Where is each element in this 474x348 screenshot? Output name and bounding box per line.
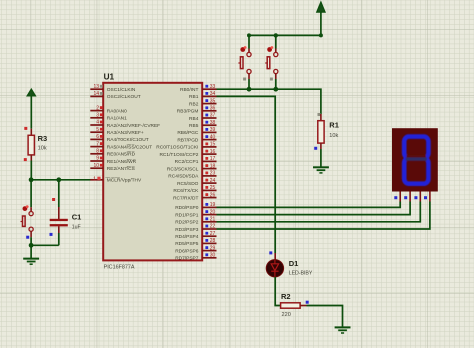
U1 pin 6 RA4 (left) — [90, 134, 148, 143]
wire button SW3 to RB0 net — [275, 79, 277, 89]
7-seg pin 3 — [414, 192, 420, 202]
svg-text:RD3/PSP3: RD3/PSP3 — [175, 227, 199, 233]
wire RD1 (pin 20) to 7-seg pin 2 — [217, 202, 411, 215]
svg-text:R3: R3 — [38, 134, 48, 143]
U1 pin 8 RE0 (left) — [90, 149, 135, 158]
svg-text:27: 27 — [210, 231, 216, 237]
svg-text:OSC1/CLKIN: OSC1/CLKIN — [107, 87, 136, 93]
svg-text:40: 40 — [210, 134, 216, 140]
svg-text:RB1: RB1 — [189, 94, 199, 100]
label R1 — [329, 121, 339, 130]
U1 pin 4 RA2 (left) — [90, 120, 160, 129]
svg-text:17: 17 — [210, 156, 216, 162]
U1 pin 18 RC3 (right) — [167, 163, 217, 172]
U1 pin 14 OSC2 (left) — [90, 91, 140, 100]
U1 pin 36 RB3 (right) — [177, 106, 217, 115]
U1 pin 35 RB2 (right) — [189, 98, 216, 107]
U1 pin 20 RD1 (right) — [175, 209, 216, 218]
svg-text:LED-BIBY: LED-BIBY — [289, 271, 313, 277]
wire RD3 (pin 22) to 7-seg pin 4 — [217, 202, 430, 230]
svg-text:C1: C1 — [72, 213, 82, 222]
svg-text:RE1/AN6/̅W̅R̅: RE1/AN6/̅W̅R̅ — [107, 158, 137, 165]
junction RB0/button2 — [273, 87, 278, 92]
U1 pin 2 RA0 (left) — [90, 105, 127, 114]
push button SW2 (left of pair) — [238, 46, 251, 80]
svg-text:30: 30 — [210, 253, 216, 259]
U1 pin 7 RA5 (left) — [90, 141, 152, 150]
U1 pin 19 RD0 (right) — [175, 202, 216, 211]
svg-text:RC4/SDI/SDA: RC4/SDI/SDA — [168, 174, 199, 180]
wire RD0 (pin 19) to 7-seg pin 1 — [217, 202, 401, 208]
resistor R1 10k — [314, 113, 324, 150]
ground (below R1) — [313, 167, 329, 173]
svg-text:24: 24 — [210, 178, 216, 184]
U1 pin 30 RD7 (right) — [175, 253, 216, 262]
ground (below R2) — [335, 327, 351, 333]
U1 pin 16 RC1 (right) — [159, 149, 216, 158]
value label 220 (R2) — [282, 312, 291, 318]
svg-text:4: 4 — [96, 120, 99, 126]
junction RB0/button1 — [247, 87, 252, 92]
value label 10k (R1) — [329, 133, 338, 139]
svg-text:RB3/PGM: RB3/PGM — [177, 109, 199, 115]
U1 pin 22 RD3 (right) — [175, 224, 216, 233]
svg-text:14: 14 — [93, 91, 99, 97]
svg-text:RD0/PSP0: RD0/PSP0 — [175, 205, 199, 211]
wire VCC rail to buttons — [249, 33, 323, 48]
svg-text:13: 13 — [93, 84, 99, 90]
U1 pin 26 RC7 (right) — [173, 192, 216, 201]
junction on VCC rail — [274, 33, 278, 37]
value label 10k (R3) — [38, 146, 47, 152]
U1 pin 25 RC6 (right) — [173, 185, 216, 194]
svg-text:RD6/PSP6: RD6/PSP6 — [175, 248, 199, 254]
U1 pin 3 RA1 (left) — [90, 113, 127, 122]
svg-text:18: 18 — [210, 163, 216, 169]
svg-text:6: 6 — [96, 134, 99, 140]
svg-text:R1: R1 — [329, 121, 339, 130]
svg-text:RA4/T0CKI/C1OUT: RA4/T0CKI/C1OUT — [107, 137, 149, 143]
value label PIC16F877A (U1) — [104, 264, 135, 270]
U1 pin 38 RB5 (right) — [189, 120, 216, 129]
U1 pin 9 RE1 (left) — [90, 156, 136, 165]
svg-text:38: 38 — [210, 120, 216, 126]
U1 pin 10 RE2 (left) — [90, 163, 135, 172]
svg-text:29: 29 — [210, 245, 216, 251]
svg-text:25: 25 — [210, 185, 216, 191]
U1 pin 33 RB0 (right) — [180, 84, 217, 93]
ground (below reset button) — [23, 259, 39, 265]
wire RB0 net: pin 33 to R1 top — [217, 89, 321, 114]
U1 pin 39 RB6 (right) — [177, 127, 216, 136]
U1 pin 24 RC5 (right) — [177, 178, 216, 187]
svg-text:220: 220 — [282, 312, 291, 318]
svg-text:1: 1 — [93, 176, 96, 182]
7-seg pin 1 — [394, 192, 400, 202]
svg-text:RE2/AN7/̅C̅S̅: RE2/AN7/̅C̅S̅ — [107, 165, 135, 172]
7-seg pin 4 — [424, 192, 430, 202]
wire reset button to ground rail — [30, 237, 32, 245]
label U1 — [104, 73, 115, 82]
capacitor C1 1uF — [50, 198, 68, 236]
wire MCLR node down to C1 — [58, 180, 60, 207]
svg-text:28: 28 — [210, 238, 216, 244]
svg-text:10: 10 — [93, 163, 99, 169]
svg-text:RB4: RB4 — [189, 116, 199, 122]
wire LED D1 to R2 — [275, 277, 280, 306]
svg-text:RD1/PSP1: RD1/PSP1 — [175, 212, 199, 218]
svg-text:RA5/AN4/̅S̅S̅/C2OUT: RA5/AN4/̅S̅S̅/C2OUT — [107, 143, 152, 150]
svg-text:RB6/PGC: RB6/PGC — [177, 130, 199, 136]
svg-text:RE0/AN5/̅R̅D̅: RE0/AN5/̅R̅D̅ — [107, 151, 136, 158]
U1 pin 37 RB4 (right) — [189, 113, 216, 122]
wire C1 to ground rail — [58, 233, 60, 245]
svg-text:37: 37 — [210, 113, 216, 119]
power symbol VCC (top, above buttons) — [317, 2, 325, 35]
resistor R3 10k — [24, 127, 35, 161]
U1 pin 15 RC0 (right) — [156, 142, 216, 151]
svg-text:10k: 10k — [329, 133, 338, 139]
svg-text:RC0/T1OSO/T1CKI: RC0/T1OSO/T1CKI — [156, 145, 198, 151]
wire R3 to MCLR node — [30, 161, 32, 180]
svg-text:15: 15 — [210, 142, 216, 148]
svg-text:U1: U1 — [104, 73, 115, 82]
label R2 — [281, 292, 291, 301]
wire R2 to ground — [307, 306, 343, 328]
push button SW3 (right of pair) — [265, 46, 278, 80]
svg-text:PIC16F877A: PIC16F877A — [104, 264, 135, 270]
U1 pin 17 RC2 (right) — [175, 156, 217, 165]
svg-text:RD5/PSP5: RD5/PSP5 — [175, 241, 199, 247]
svg-text:26: 26 — [210, 192, 216, 198]
svg-text:9: 9 — [96, 156, 99, 162]
svg-text:RA0/AN0: RA0/AN0 — [107, 108, 127, 114]
power symbol VCC (left, above R3) — [27, 89, 35, 129]
svg-text:20: 20 — [210, 209, 216, 215]
7-seg pin 2 — [404, 192, 410, 202]
U1 pin 29 RD6 (right) — [175, 245, 216, 254]
U1 pin 34 RB1 (right) — [189, 91, 216, 100]
svg-text:̅M̅C̅L̅R̅/Vpp/THV: ̅M̅C̅L̅R̅/Vpp/THV — [105, 177, 142, 184]
svg-text:D1: D1 — [289, 259, 299, 268]
svg-text:23: 23 — [210, 171, 216, 177]
value label 1uF (C1) — [72, 225, 81, 231]
svg-text:RB7/PGD: RB7/PGD — [177, 137, 199, 143]
U1 pin 1 &#773;M&#773;C&#773;L&#773;R&#773; (left) — [90, 176, 142, 183]
svg-text:RA2/AN2/VREF-/CVREF: RA2/AN2/VREF-/CVREF — [107, 123, 160, 129]
svg-text:21: 21 — [210, 217, 216, 223]
label C1 — [72, 213, 82, 222]
wire MCLR node down to reset button — [30, 180, 32, 207]
microcontroller U1 PIC16F877A body — [103, 83, 202, 261]
svg-text:RC3/SCK/SCL: RC3/SCK/SCL — [167, 166, 199, 172]
wire RD2 (pin 21) to 7-seg pin 3 — [217, 202, 421, 222]
svg-text:RC2/CCP1: RC2/CCP1 — [175, 159, 199, 165]
wire RB1 net: pin 34 down to LED D1 — [217, 96, 276, 253]
svg-text:RA3/AN3/VREF+: RA3/AN3/VREF+ — [107, 130, 144, 136]
svg-text:22: 22 — [210, 224, 216, 230]
U1 pin 40 RB7 (right) — [177, 134, 216, 143]
wire R1 to ground — [320, 149, 322, 167]
svg-text:36: 36 — [210, 106, 216, 112]
svg-text:16: 16 — [210, 149, 216, 155]
value label LED-BIBY (D1) — [289, 271, 313, 277]
svg-text:19: 19 — [210, 202, 216, 208]
label D1 — [289, 259, 299, 268]
label R3 — [38, 134, 48, 143]
junction MCLR/C1 — [56, 177, 61, 182]
svg-text:34: 34 — [210, 91, 216, 97]
svg-text:33: 33 — [210, 84, 216, 90]
svg-text:2: 2 — [96, 105, 99, 111]
svg-text:RC1/T1OSI/CCP2: RC1/T1OSI/CCP2 — [159, 152, 198, 158]
resistor R2 220 — [281, 301, 309, 308]
svg-text:RD4/PSP4: RD4/PSP4 — [175, 234, 199, 240]
svg-text:RB0/INT: RB0/INT — [180, 87, 198, 93]
LED D1 LED-BIBY — [266, 251, 283, 277]
push button SW1 (reset) — [21, 205, 34, 238]
U1 pin 27 RD4 (right) — [175, 231, 216, 240]
svg-text:1uF: 1uF — [72, 225, 81, 231]
svg-text:RC6/TX/CK: RC6/TX/CK — [173, 188, 199, 194]
junction MCLR/R3 — [29, 177, 34, 182]
junction ground rail — [29, 243, 34, 248]
svg-text:RA1/AN1: RA1/AN1 — [107, 116, 127, 122]
svg-text:RD7/PSP7: RD7/PSP7 — [175, 256, 199, 262]
svg-text:3: 3 — [96, 113, 99, 119]
wire MCLR node to pin 1 — [31, 179, 90, 181]
U1 pin 13 OSC1 (left) — [90, 84, 136, 93]
svg-text:R2: R2 — [281, 292, 291, 301]
svg-text:35: 35 — [210, 98, 216, 104]
U1 pin 5 RA3 (left) — [90, 127, 144, 136]
svg-text:5: 5 — [96, 127, 99, 133]
svg-text:RB5: RB5 — [189, 123, 199, 129]
wire ground rail (button/C1) — [31, 245, 59, 258]
svg-text:RB2: RB2 — [189, 101, 199, 107]
U1 pin 28 RD5 (right) — [175, 238, 216, 247]
svg-text:39: 39 — [210, 127, 216, 133]
svg-text:RC5/SDO: RC5/SDO — [177, 181, 199, 187]
svg-text:OSC2/CLKOUT: OSC2/CLKOUT — [107, 94, 141, 100]
7-segment display (common cathode) — [392, 128, 438, 191]
svg-text:10k: 10k — [38, 146, 47, 152]
svg-text:7: 7 — [96, 141, 99, 147]
svg-text:RD2/PSP2: RD2/PSP2 — [175, 220, 199, 226]
U1 pin 21 RD2 (right) — [175, 217, 216, 226]
U1 pin 23 RC4 (right) — [168, 171, 216, 180]
svg-text:8: 8 — [96, 149, 99, 155]
svg-text:RC7/RX/DT: RC7/RX/DT — [173, 195, 198, 201]
wire button SW2 to RB0 net — [248, 79, 250, 89]
